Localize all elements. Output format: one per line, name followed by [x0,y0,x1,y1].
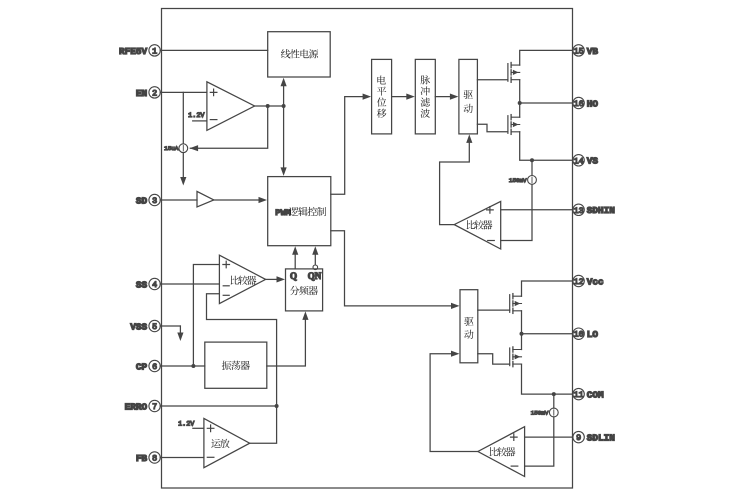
transistor Q2 (high-side lower) (NMOS) [508,115,520,135]
wire pulse filter to high driver [435,96,451,98]
svg-text:11: 11 [574,390,584,400]
wire high-side totem vertical Q1 source to Q2 drain [519,80,521,118]
svg-text:PWM: PWM [275,208,290,218]
wire offset source V2 to comparator U14 - input [525,417,554,466]
svg-text:7: 7 [152,402,157,412]
svg-text:HO: HO [587,98,599,109]
block U2 linear regulator 线性电源 [268,32,331,77]
comparator U11 soft-start 比较器 [219,255,265,303]
wire U13 output up to high driver [440,142,470,225]
wire ERRO rail up to U11 lower - input [207,294,277,406]
wire current source to ground arrow [182,153,184,178]
svg-text:2: 2 [152,88,157,98]
svg-text:EN: EN [136,88,148,99]
wire PWM logic to low driver input [331,231,452,306]
svg-text:150mV: 150mV [509,177,527,184]
svg-text:1.2V: 1.2V [188,112,205,120]
svg-text:15: 15 [574,46,584,56]
comparator U14 low-side overcurrent 比较器 (points left) [478,427,525,477]
wire U11 output to frequency divider [266,278,278,280]
wire pin9 SDLIN to comparator U14 + input [525,436,573,438]
offset source V1 150mV (high side) [509,176,536,185]
svg-text:ERRO: ERRO [125,401,148,412]
svg-text:12: 12 [574,277,584,287]
wire pin2 EN to comparator U1 + input [160,91,207,93]
pin 8 FB [136,452,160,464]
svg-text:150mV: 150mV [531,410,549,417]
svg-text:SS: SS [136,279,148,290]
pin 12 Vcc [573,275,604,287]
svg-text:VB: VB [587,46,599,57]
svg-text:6: 6 [152,362,157,372]
svg-text:FB: FB [136,453,148,464]
wire pin4 SS to comparator U11 - input [160,283,219,285]
svg-text:Vcc: Vcc [587,276,604,287]
wire CP branch up to U11 + input [193,265,219,367]
wire pin13 SDHIN to comparator U13 + input [501,209,573,211]
svg-text:15uA: 15uA [164,145,179,152]
wire U1 output to level-shift rail [255,105,284,107]
node QN inversion bubble [313,265,318,270]
wire feedback from U1 output to current source [190,106,267,148]
comparator U1 (EN undervoltage comparator, 1.2V ref) [188,82,254,131]
wire U14 output to low driver input [430,354,478,452]
svg-text:RFE5V: RFE5V [119,46,148,57]
transistor Q1 (high-side upper) (NMOS) [508,63,520,83]
pin 10 LO [573,328,599,340]
wire pin8 FB to op-amp U12 - input [160,457,204,459]
block U6 level shift 电平位移 (vertical text) [372,59,392,133]
svg-text:1.2V: 1.2V [178,421,195,429]
wire pin6 CP to oscillator [160,365,205,367]
svg-text:16: 16 [574,99,584,109]
svg-text:VSS: VSS [130,321,147,332]
buffer U10 (SD input buffer) [197,191,214,207]
node G junction VS / 150mV source tap [530,158,534,162]
wire low driver to Q4 gate [478,354,510,364]
svg-text:8: 8 [152,454,157,464]
svg-text:10: 10 [574,330,584,340]
svg-text:VS: VS [587,156,599,167]
pin 4 SS [136,278,160,290]
transistor Q4 (low-side lower) (NMOS) [510,347,522,367]
wire VS tap down to offset source V1 [531,160,533,175]
wire pin1 RFE5V to linear regulator [160,49,267,51]
node C junction on vertical rail [282,104,286,108]
svg-text:3: 3 [152,196,157,206]
pin 2 EN [136,87,160,99]
wire bidirectional rail between linear regulator and PWM logic [283,85,285,169]
svg-text:SDHIN: SDHIN [587,205,616,216]
wire Q4 source to COM rail [522,364,573,394]
svg-text:4: 4 [152,280,157,290]
pin 5 VSS [130,320,160,332]
wire high driver to Q1 gate [477,79,508,81]
pin 1 RFE5V [119,45,160,57]
block U4 frequency divider 分频器 with Q / QN outputs [286,269,323,311]
wire Vcc rail: pin12 to Q3 drain [522,281,573,296]
pin 11 COM [573,388,604,400]
svg-text:Q: Q [290,271,297,281]
block U5 oscillator 振荡器 [205,342,267,388]
block U7 pulse filter 脉冲滤波 (vertical text) [415,59,435,133]
wire level shift to pulse filter [392,96,408,98]
wire offset source V1 to comparator U13 - input [501,184,532,240]
block U9 low-side driver 驱动 (vertical text) [460,290,478,363]
pin 14 VS [573,155,599,167]
svg-text:SD: SD [136,195,148,206]
node B junction U1 output [266,104,270,108]
svg-text:14: 14 [574,156,584,166]
wire low-side totem vertical Q3 source to Q4 drain [521,311,523,350]
wire pin16 HO tap [520,102,573,104]
node F junction HO [518,101,522,105]
wire divider Q output up to PWM logic [294,254,296,269]
wire PWM logic to level shift [331,97,364,195]
svg-text:13: 13 [574,206,584,216]
pin 16 HO [573,97,599,109]
wire pin10 LO tap [522,333,573,335]
pin 9 SDLIN [573,431,615,443]
wire low driver to Q3 gate [478,309,510,311]
svg-text:1: 1 [152,46,157,56]
comparator U13 high-side overcurrent 比较器 (points left) [454,201,501,249]
wire ERRO rail down to op-amp U12 output [250,406,277,443]
pin 7 ERRO [125,400,161,412]
wire buffer to PWM logic [214,199,259,201]
wire divider QN output up to PWM logic [314,254,316,265]
wire COM tap down to offset source V2 [553,394,555,408]
node E junction ERRO [275,404,279,408]
svg-text:5: 5 [152,322,157,332]
offset source V2 150mV (low side) [531,408,558,417]
svg-text:QN: QN [308,271,322,281]
wire pin3 SD to buffer [160,199,197,201]
op-amp U12 error amplifier 运放 (1.2V ref) [178,418,250,467]
transistor Q3 (low-side upper) (NMOS) [510,294,522,314]
pin 13 SDHIN [573,204,615,216]
svg-text:COM: COM [587,390,604,401]
node H junction LO [520,332,524,336]
wire oscillator output to frequency divider [267,319,306,367]
block U3 PWM logic control PWM逻辑控制 [268,177,331,246]
wire pin5 VSS to ground arrow [160,325,180,327]
wire high driver to Q2 gate [477,124,508,132]
pin 3 SD [136,194,160,206]
svg-text:SDLIN: SDLIN [587,433,616,444]
svg-text:CP: CP [136,361,148,372]
current source I1 15uA [164,144,188,153]
svg-text:LO: LO [587,329,599,340]
svg-text:9: 9 [576,433,581,443]
IC boundary box [162,9,573,489]
block U8 high-side driver 驱动 (vertical text) [459,59,478,133]
wire pin7 ERRO to node E [160,405,276,407]
wire EN branch down to current source [182,92,184,143]
pin 6 CP [136,360,160,372]
node I junction COM / 150mV source tap [552,392,556,396]
node D junction on CP line [191,364,195,368]
wire VB rail: pin15 to Q1 drain [520,50,573,65]
pin 15 VB [573,45,599,57]
wire Q2 source to VS rail [520,132,573,161]
